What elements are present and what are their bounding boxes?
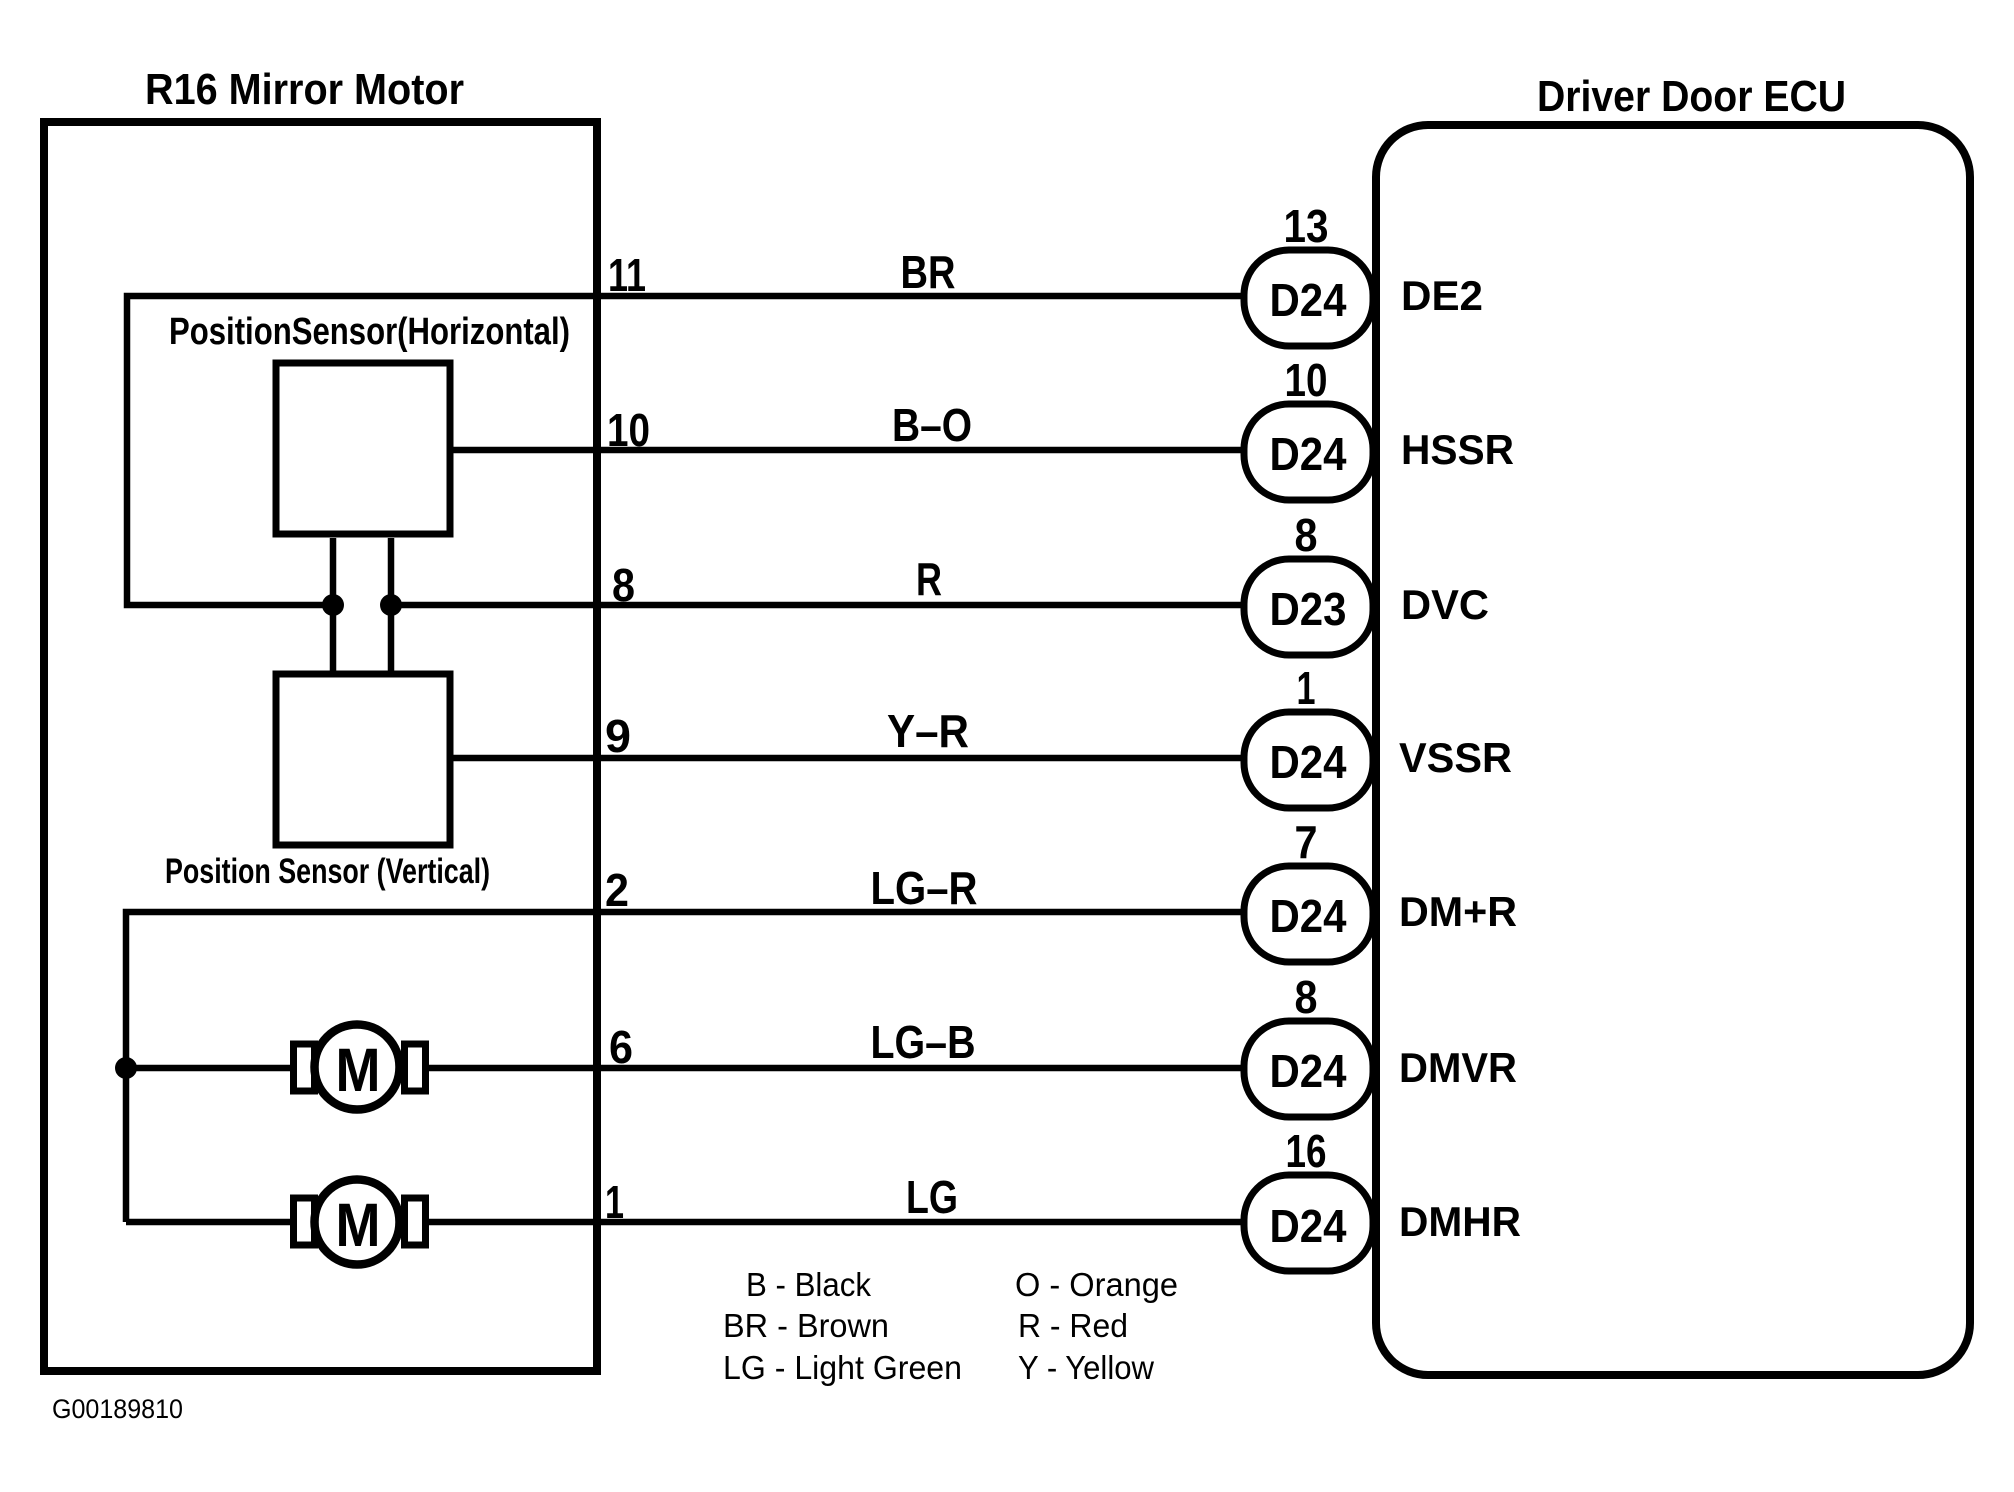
wire 10 B-O: sensor (horizontal) to connector xyxy=(450,447,1246,454)
svg-text:LG–R: LG–R xyxy=(871,862,978,914)
svg-text:PositionSensor(Horizontal): PositionSensor(Horizontal) xyxy=(169,311,570,353)
svg-text:M: M xyxy=(336,1036,381,1104)
junction dot on left vertical at motor wire xyxy=(115,1057,137,1079)
connector D24 pin 8 xyxy=(1244,971,1373,1117)
wire 1 LG: through motor M2 to connector xyxy=(126,1219,1246,1226)
svg-text:LG - Light Green: LG - Light Green xyxy=(723,1349,962,1386)
connector D23 pin 8 xyxy=(1244,509,1373,655)
svg-text:DMHR: DMHR xyxy=(1399,1198,1521,1245)
wire 6 LG-B: through motor M1 to connector xyxy=(126,1065,1246,1072)
svg-text:R: R xyxy=(916,553,942,605)
svg-text:D24: D24 xyxy=(1270,274,1347,326)
svg-text:8: 8 xyxy=(1295,509,1318,561)
block Driver Door ECU outline xyxy=(1376,125,1970,1375)
wire 8 R: right segment from sensor leg to connector D23 xyxy=(395,602,1246,609)
svg-text:LG: LG xyxy=(906,1171,958,1223)
svg-text:6: 6 xyxy=(609,1021,633,1073)
svg-text:BR: BR xyxy=(901,246,956,298)
svg-text:DM+R: DM+R xyxy=(1399,888,1517,935)
svg-text:HSSR: HSSR xyxy=(1401,426,1514,473)
sensor leg right xyxy=(388,538,395,671)
connector D24 pin 13 xyxy=(1244,200,1373,346)
wire 11 BR: pin 11 to connector, with vertical drop to wire R xyxy=(127,296,1246,605)
svg-text:DVC: DVC xyxy=(1401,581,1489,628)
svg-text:LG–B: LG–B xyxy=(871,1016,976,1068)
motor M2 (horizontal drive) terminal left xyxy=(294,1198,315,1245)
svg-text:D24: D24 xyxy=(1270,428,1347,480)
svg-text:B–O: B–O xyxy=(892,399,972,451)
wire 9 Y-R: sensor (vertical) to connector xyxy=(450,755,1246,762)
svg-text:D24: D24 xyxy=(1270,1200,1347,1252)
position sensor (horizontal) box xyxy=(276,363,450,534)
svg-text:D23: D23 xyxy=(1270,583,1347,635)
svg-text:R - Red: R - Red xyxy=(1018,1307,1128,1344)
svg-text:13: 13 xyxy=(1284,200,1329,252)
motor M2 terminal right xyxy=(405,1198,426,1245)
svg-text:O - Orange: O - Orange xyxy=(1015,1266,1178,1303)
svg-text:D24: D24 xyxy=(1270,1045,1347,1097)
motor M1 (vertical drive) terminal left xyxy=(294,1044,315,1091)
position sensor (vertical) box xyxy=(276,674,450,845)
connector D24 pin 10 xyxy=(1244,354,1373,500)
motor M2 body xyxy=(315,1180,400,1265)
svg-text:16: 16 xyxy=(1286,1125,1327,1177)
svg-text:Y - Yellow: Y - Yellow xyxy=(1018,1349,1154,1386)
svg-text:10: 10 xyxy=(1285,354,1328,406)
junction dot at right leg on wire R xyxy=(380,594,402,616)
svg-text:1: 1 xyxy=(1297,662,1316,714)
svg-text:1: 1 xyxy=(605,1176,624,1228)
connector D24 pin 7 xyxy=(1244,816,1373,962)
svg-text:DMVR: DMVR xyxy=(1399,1044,1517,1091)
junction dot at left leg on wire R xyxy=(322,594,344,616)
block R16 Mirror Motor outline xyxy=(44,122,597,1371)
svg-text:8: 8 xyxy=(1295,971,1318,1023)
svg-text:9: 9 xyxy=(605,710,631,762)
svg-text:R16 Mirror Motor: R16 Mirror Motor xyxy=(145,65,464,114)
svg-text:Position Sensor (Vertical): Position Sensor (Vertical) xyxy=(165,852,490,891)
sensor leg left xyxy=(330,538,337,671)
svg-text:M: M xyxy=(336,1191,381,1259)
svg-text:VSSR: VSSR xyxy=(1399,734,1512,781)
svg-text:10: 10 xyxy=(607,404,650,456)
wire 2 LG-R: connector to left vertical feed xyxy=(126,912,1246,1222)
svg-text:8: 8 xyxy=(612,559,635,611)
svg-text:Driver Door ECU: Driver Door ECU xyxy=(1537,72,1846,121)
svg-text:BR - Brown: BR - Brown xyxy=(723,1307,889,1344)
connector D24 pin 1 xyxy=(1244,662,1373,808)
svg-text:G00189810: G00189810 xyxy=(52,1394,183,1424)
svg-text:DE2: DE2 xyxy=(1401,272,1483,319)
svg-text:D24: D24 xyxy=(1270,890,1347,942)
motor M1 body xyxy=(315,1025,400,1110)
motor M1 terminal right xyxy=(405,1044,426,1091)
svg-text:7: 7 xyxy=(1295,816,1318,868)
svg-text:11: 11 xyxy=(608,249,646,301)
connector D24 pin 16 xyxy=(1244,1125,1373,1271)
svg-text:2: 2 xyxy=(605,864,629,916)
svg-text:Y–R: Y–R xyxy=(887,705,969,757)
svg-text:D24: D24 xyxy=(1270,736,1347,788)
svg-text:B - Black: B - Black xyxy=(746,1266,871,1303)
